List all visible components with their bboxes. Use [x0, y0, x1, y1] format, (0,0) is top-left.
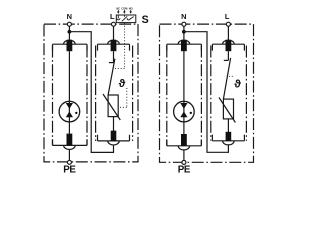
label PE (unit 1): [63, 164, 76, 175]
svg-text:L: L: [110, 12, 115, 21]
linkage theta to varistor (dotted, unit 1): [119, 88, 127, 107]
wire varistor to bottom electrode (unit 2): [227, 119, 229, 132]
node N junction dot (unit 1): [68, 30, 72, 34]
svg-text:COM: COM: [121, 6, 127, 10]
svg-text:S: S: [142, 14, 149, 26]
enclosure (outer dash-dot box, unit 2): [160, 24, 254, 162]
label L (unit 1): [110, 12, 115, 21]
svg-text:L: L: [225, 12, 230, 21]
wire varistor to bottom electrode (unit 1): [113, 117, 115, 131]
terminal L (unit 2): [226, 22, 230, 26]
wire to PE terminal (unit 2): [183, 150, 185, 160]
varistor (unit 2): [219, 98, 235, 123]
wire N to varistor-branch bottom (return wire, unit 1): [69, 32, 113, 153]
enclosure (outer dash-dot box, unit 1): [44, 24, 138, 162]
module box L varistor (dash-dot sides, unit 1): [96, 46, 133, 141]
wire to PE terminal (unit 1): [68, 150, 70, 160]
label N (unit 2): [181, 12, 186, 21]
module box N-PE arrester (dash-dot sides, unit 1): [53, 46, 88, 146]
wire L terminal to electrode (unit 2): [227, 26, 229, 41]
label PE (unit 2): [178, 165, 191, 176]
svg-text:NC: NC: [116, 6, 120, 10]
svg-text:PE: PE: [178, 165, 191, 176]
top electrode varistor module (unit 1): [98, 40, 130, 51]
varistor (unit 1): [103, 94, 120, 120]
label L (unit 2): [225, 12, 230, 21]
thermal trip symbol theta (unit 1): [119, 78, 126, 90]
thermal disconnector switch (unit 2): [223, 51, 230, 99]
svg-text:N: N: [67, 12, 72, 21]
wire L terminal to electrode (unit 1): [113, 26, 115, 41]
bottom electrode varistor module (unit 2): [212, 132, 244, 145]
wire N terminal to electrode (unit 1): [68, 26, 70, 41]
bottom electrode N module (unit 2): [167, 134, 202, 150]
contact S terminal labels (unit 1): [116, 6, 132, 10]
top electrode N module (unit 1): [53, 40, 88, 51]
svg-text:N: N: [181, 12, 186, 21]
thermal trip symbol theta (unit 2): [234, 79, 241, 91]
top electrode N module (unit 2): [167, 40, 202, 51]
wire N terminal to electrode (unit 2): [183, 26, 185, 41]
linkage S to thermal switch (dotted, unit 1): [113, 23, 125, 69]
bottom electrode N module (unit 1): [53, 134, 88, 150]
svg-text:ϑ: ϑ: [119, 78, 126, 90]
module box N-PE arrester (dash-dot sides, unit 2): [167, 46, 202, 146]
thermal disconnector switch (unit 1): [108, 51, 115, 95]
node N junction dot (unit 2): [182, 30, 186, 34]
remote signalling contact box S (unit 1): [116, 15, 136, 23]
svg-text:ϑ: ϑ: [234, 79, 241, 91]
terminal L (unit 1): [112, 22, 116, 26]
wire N to varistor-branch bottom (return wire, unit 2): [184, 32, 229, 153]
spark gap arrester (unit 2): [174, 51, 195, 134]
label S (unit 1): [142, 14, 149, 26]
terminal PE (unit 2): [182, 160, 186, 164]
terminal N (unit 2): [182, 22, 186, 26]
terminal PE (unit 1): [67, 160, 71, 164]
top electrode varistor module (unit 2): [212, 40, 244, 51]
contact S internals (changeover contact, unit 1): [117, 15, 134, 21]
linkage theta to switch (dotted, unit 2): [229, 75, 234, 77]
contact S terminal arrows (unit 1): [117, 10, 132, 14]
label N (unit 1): [67, 12, 72, 21]
module box L varistor (dash-dot sides, unit 2): [211, 46, 247, 141]
svg-text:PE: PE: [63, 164, 76, 175]
bottom electrode varistor module (unit 1): [98, 131, 130, 145]
terminal N (unit 1): [67, 22, 71, 26]
spark gap arrester (unit 1): [59, 51, 80, 134]
svg-text:NO: NO: [129, 6, 133, 10]
